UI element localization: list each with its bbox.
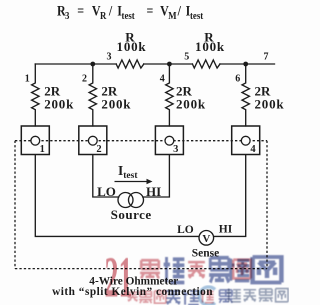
resistor 2R-1 vertical with leads — [32, 64, 39, 126]
resistor R1 100k horizontal — [116, 60, 144, 68]
switch box 3 — [155, 126, 183, 155]
svg-text:Source: Source — [111, 207, 152, 222]
svg-text:M: M — [168, 10, 177, 22]
switch box 2 — [79, 126, 107, 155]
svg-text:/: / — [177, 2, 181, 19]
watermark blue glyph row1 — [164, 257, 282, 283]
svg-text:7: 7 — [264, 51, 269, 62]
contact circle 4 — [241, 136, 250, 145]
dashed guard box left side — [14, 141, 16, 269]
watermark red glyph row2 — [128, 290, 214, 303]
current source Itest right circle — [129, 193, 144, 208]
svg-text:test: test — [122, 10, 136, 22]
svg-text:LO: LO — [97, 184, 116, 199]
svg-text:200k: 200k — [255, 96, 285, 111]
svg-text:4: 4 — [250, 144, 256, 155]
svg-text:1: 1 — [40, 144, 45, 155]
contact circle 3 — [165, 136, 174, 145]
wire top rail left segment node1 to node2 to R1 — [35, 63, 116, 65]
resistor 2R-4 vertical with leads — [242, 64, 249, 126]
junction node 6 — [243, 62, 248, 67]
junction node 2 — [90, 62, 95, 67]
svg-text:200k: 200k — [44, 96, 74, 111]
svg-text:2: 2 — [96, 144, 101, 155]
wire rail R1 to R2 — [144, 63, 193, 65]
contact circle 1 — [31, 136, 40, 145]
svg-text:200k: 200k — [176, 96, 206, 111]
svg-text:2: 2 — [82, 74, 87, 85]
dashed guard box right side — [266, 141, 268, 269]
formula R3 = VR/Itest = VM/Itest — [57, 2, 204, 22]
dashed guard box top side through contacts — [15, 140, 267, 142]
watermark red glyph row1 — [140, 260, 251, 279]
switch box 4 — [232, 126, 260, 155]
svg-text:HI: HI — [219, 223, 233, 235]
watermark gray glyph row2 — [227, 289, 288, 302]
svg-text:=: = — [146, 2, 153, 19]
wire switch3 to source HI — [143, 155, 170, 197]
voltmeter circle — [199, 231, 214, 246]
watermark big 21 — [105, 244, 133, 305]
wire switch4 to V HI — [213, 155, 245, 237]
svg-text:3: 3 — [65, 10, 69, 22]
svg-text:R: R — [100, 10, 107, 22]
contact circle 2 — [88, 136, 97, 145]
svg-text:200k: 200k — [101, 96, 131, 111]
svg-text:21: 21 — [105, 244, 133, 305]
wire switch1 to V LO — [35, 155, 199, 237]
wire rail R2 to node7 — [220, 63, 275, 65]
switch box 1 — [21, 126, 49, 155]
wire switch2 to source LO — [93, 155, 119, 197]
svg-text:LO: LO — [177, 224, 194, 236]
junction node 4 — [167, 62, 172, 67]
svg-text:=: = — [77, 2, 84, 19]
dashed guard box bottom side — [15, 268, 267, 270]
svg-text:3: 3 — [107, 51, 112, 62]
svg-text:/: / — [108, 2, 112, 19]
svg-text:4: 4 — [160, 74, 165, 85]
svg-text:V: V — [202, 233, 210, 245]
resistor R2 100k horizontal — [192, 60, 220, 68]
svg-text:1: 1 — [25, 74, 30, 85]
svg-text:100k: 100k — [195, 39, 225, 54]
svg-text:3: 3 — [173, 144, 178, 155]
Itest current direction arrow — [115, 181, 149, 183]
svg-text:100k: 100k — [117, 39, 147, 54]
watermark light blue C — [199, 287, 215, 305]
svg-text:test: test — [190, 10, 204, 22]
svg-text:5: 5 — [184, 51, 189, 62]
resistor 2R-3 vertical with leads — [166, 64, 173, 126]
resistor 2R-2 vertical with leads — [89, 64, 96, 126]
svg-text:6: 6 — [235, 74, 240, 85]
current source Itest left circle — [118, 193, 133, 208]
watermark blue glyph row2 — [166, 290, 233, 305]
svg-text:HI: HI — [146, 184, 161, 199]
